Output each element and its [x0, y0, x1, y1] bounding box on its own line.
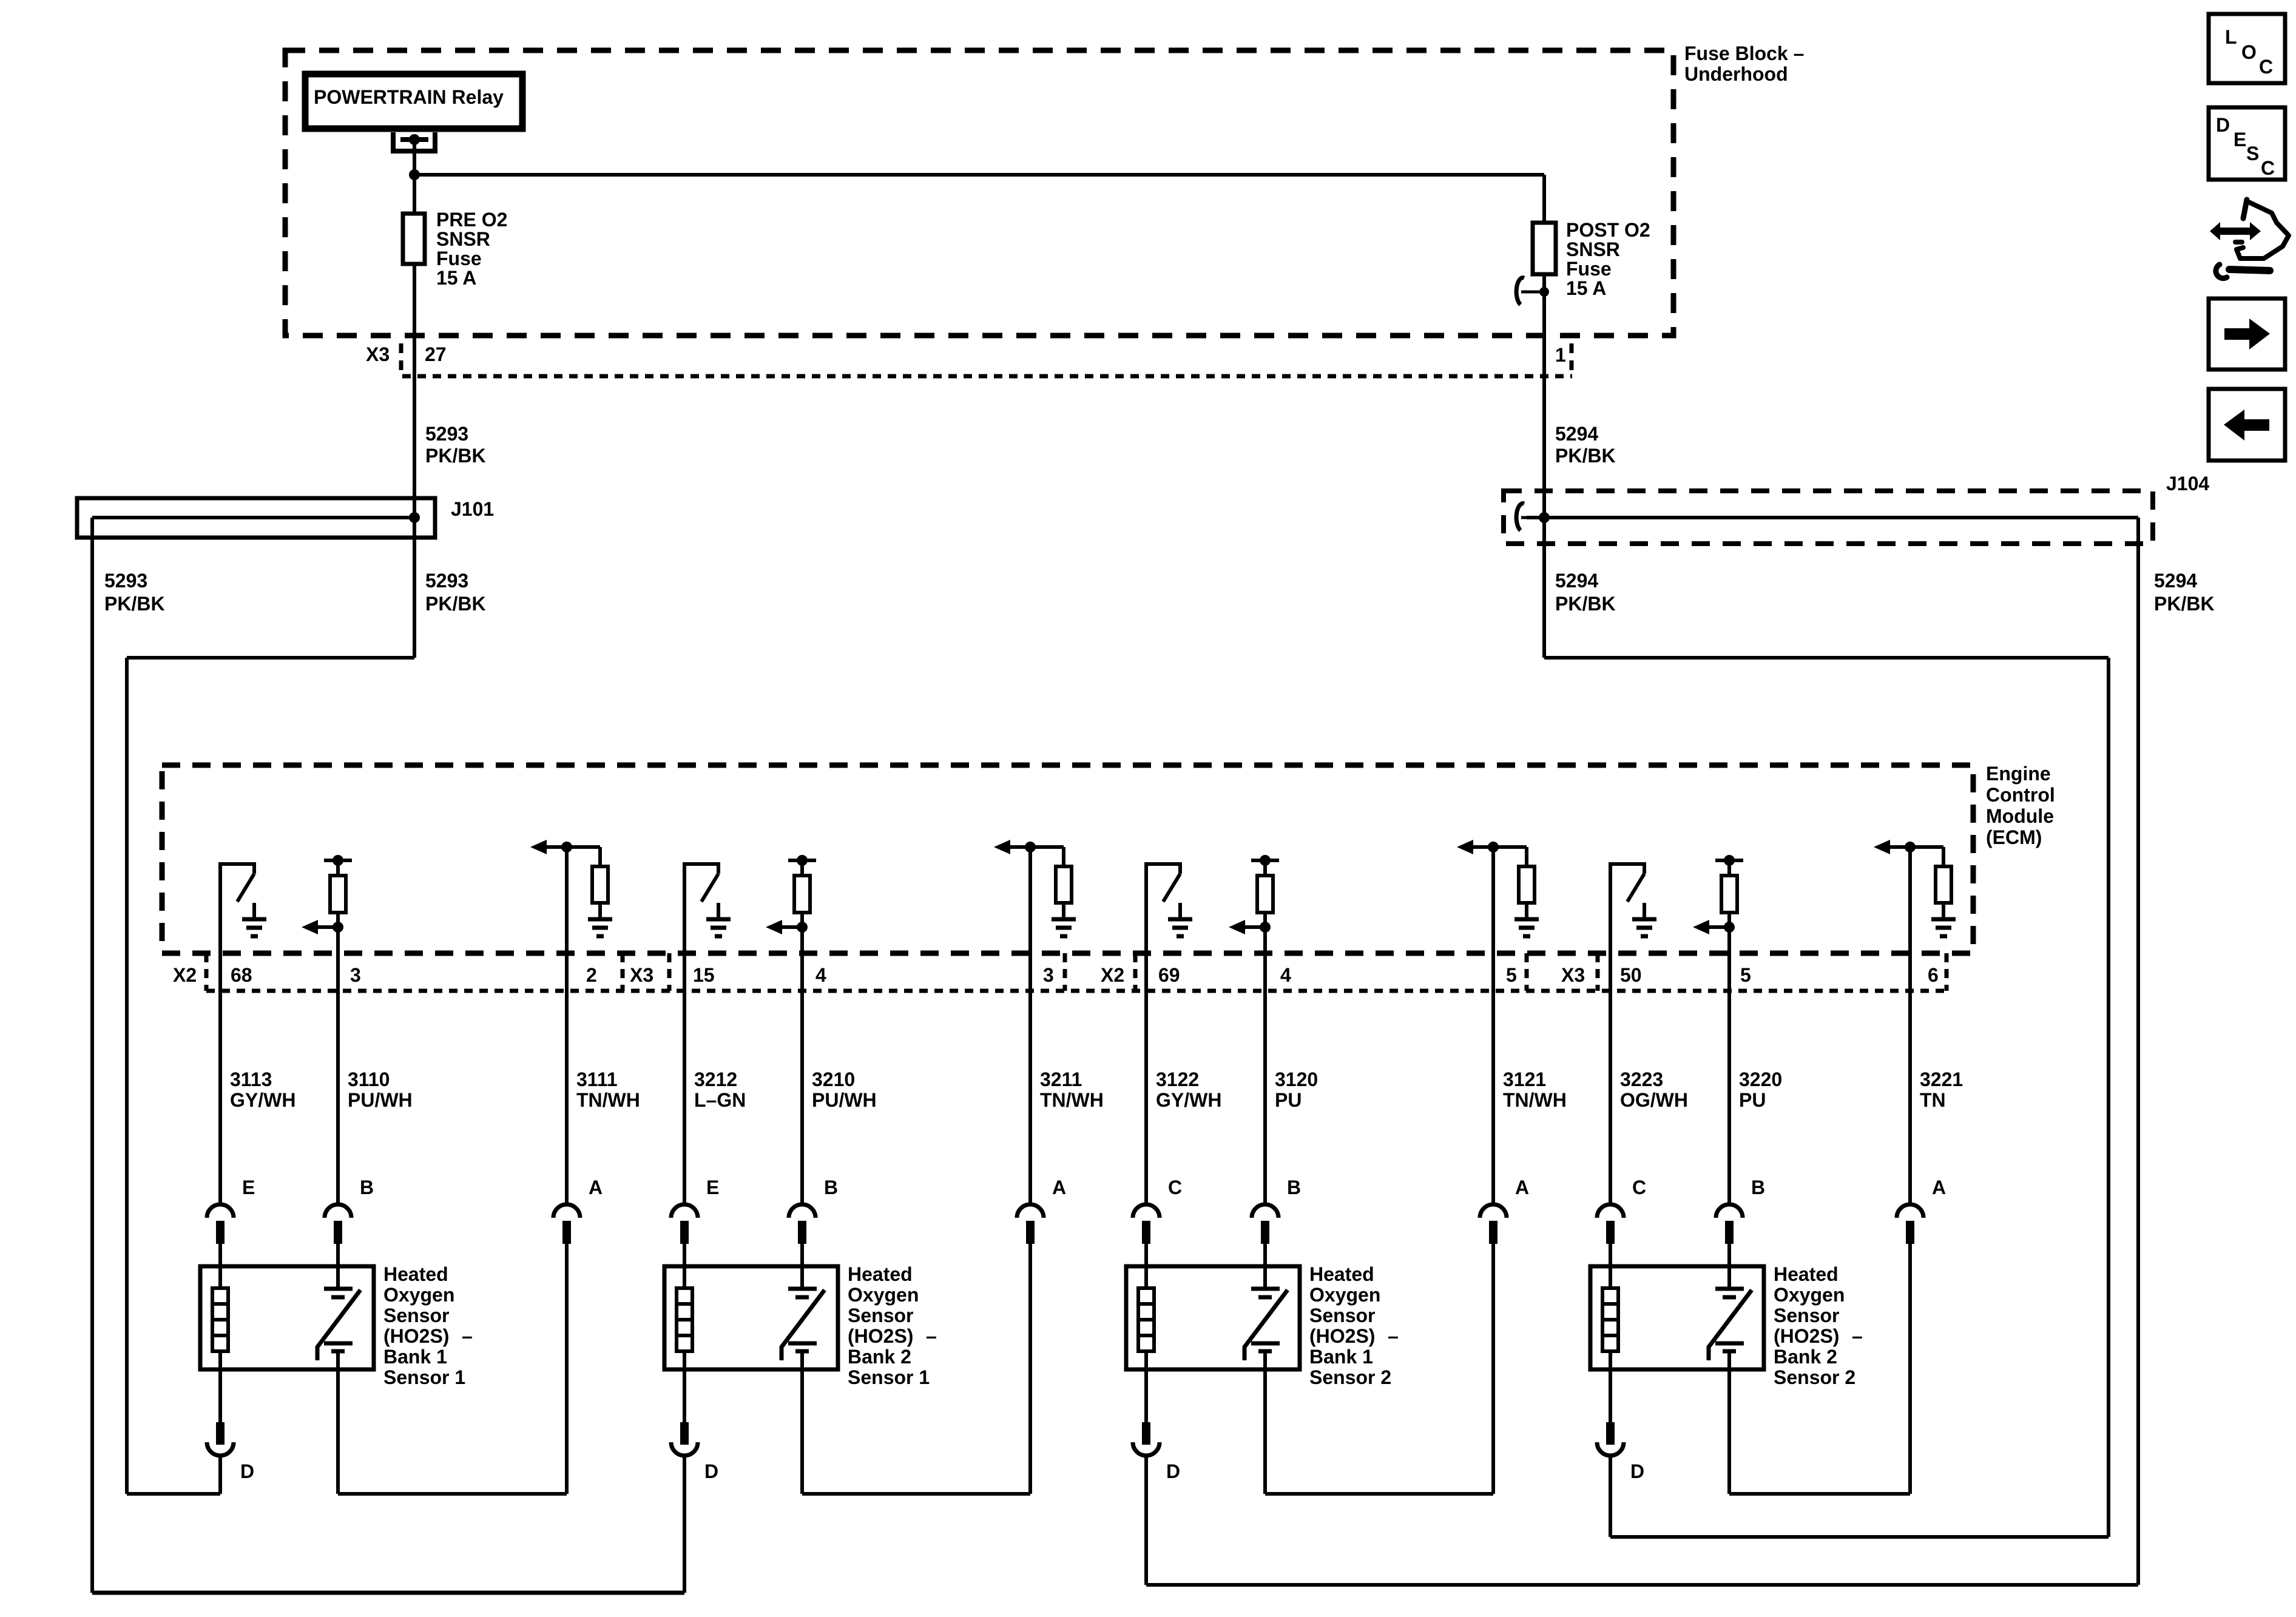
svg-text:(HO2S): (HO2S)	[1309, 1325, 1375, 1347]
svg-text:Oxygen: Oxygen	[1309, 1284, 1380, 1306]
svg-text:Heated: Heated	[848, 1263, 913, 1285]
svg-text:5293: 5293	[425, 570, 468, 592]
svg-text:–: –	[1388, 1325, 1399, 1347]
svg-text:Sensor: Sensor	[848, 1305, 913, 1326]
svg-text:(HO2S): (HO2S)	[383, 1325, 449, 1347]
svg-text:A: A	[1052, 1176, 1066, 1198]
svg-text:Fuse: Fuse	[436, 248, 482, 269]
svg-text:3210: 3210	[812, 1068, 855, 1090]
svg-text:Underhood: Underhood	[1684, 63, 1788, 85]
svg-text:D: D	[2216, 114, 2230, 136]
svg-text:5294: 5294	[1555, 423, 1598, 445]
svg-text:Sensor 1: Sensor 1	[848, 1366, 930, 1388]
svg-text:6: 6	[1928, 964, 1939, 986]
svg-text:A: A	[589, 1176, 603, 1198]
svg-text:Control: Control	[1986, 784, 2055, 806]
svg-text:B: B	[1287, 1176, 1301, 1198]
svg-text:PRE O2: PRE O2	[436, 209, 507, 231]
svg-text:B: B	[1751, 1176, 1765, 1198]
svg-text:PU: PU	[1739, 1089, 1766, 1111]
svg-text:Sensor: Sensor	[1774, 1305, 1839, 1326]
svg-text:(ECM): (ECM)	[1986, 826, 2042, 848]
svg-text:–: –	[926, 1325, 937, 1347]
svg-text:Module: Module	[1986, 805, 2054, 827]
svg-text:D: D	[1166, 1460, 1180, 1482]
svg-text:J101: J101	[451, 498, 494, 520]
svg-text:X2: X2	[173, 964, 197, 986]
svg-text:X3: X3	[1561, 964, 1585, 986]
svg-text:PU: PU	[1275, 1089, 1302, 1111]
svg-text:2: 2	[586, 964, 597, 986]
svg-text:3121: 3121	[1503, 1068, 1546, 1090]
svg-text:POWERTRAIN Relay: POWERTRAIN Relay	[314, 86, 504, 108]
svg-text:50: 50	[1620, 964, 1642, 986]
svg-text:68: 68	[231, 964, 252, 986]
svg-text:PU/WH: PU/WH	[812, 1089, 877, 1111]
svg-text:TN/WH: TN/WH	[1040, 1089, 1104, 1111]
svg-text:PK/BK: PK/BK	[425, 445, 486, 467]
svg-text:X3: X3	[366, 343, 390, 365]
svg-text:69: 69	[1158, 964, 1180, 986]
svg-text:Bank 1: Bank 1	[1309, 1346, 1373, 1368]
svg-text:D: D	[704, 1460, 718, 1482]
svg-text:Bank 2: Bank 2	[848, 1346, 911, 1368]
svg-text:Fuse: Fuse	[1566, 258, 1612, 280]
svg-text:Bank 1: Bank 1	[383, 1346, 447, 1368]
svg-text:C: C	[1632, 1176, 1646, 1198]
svg-text:3113: 3113	[230, 1068, 272, 1090]
svg-text:Sensor: Sensor	[1309, 1305, 1375, 1326]
svg-text:J104: J104	[2166, 473, 2209, 495]
svg-text:3211: 3211	[1040, 1068, 1082, 1090]
svg-text:A: A	[1932, 1176, 1946, 1198]
svg-text:OG/WH: OG/WH	[1620, 1089, 1688, 1111]
svg-text:3110: 3110	[348, 1068, 390, 1090]
svg-text:Fuse Block –: Fuse Block –	[1684, 42, 1804, 64]
svg-text:3: 3	[350, 964, 361, 986]
svg-text:PK/BK: PK/BK	[1555, 593, 1616, 615]
svg-text:3212: 3212	[694, 1068, 737, 1090]
svg-text:C: C	[1168, 1176, 1182, 1198]
svg-text:27: 27	[425, 343, 447, 365]
svg-text:5293: 5293	[425, 423, 468, 445]
svg-text:15: 15	[693, 964, 715, 986]
svg-text:GY/WH: GY/WH	[230, 1089, 295, 1111]
svg-text:Sensor: Sensor	[383, 1305, 449, 1326]
svg-text:Oxygen: Oxygen	[1774, 1284, 1845, 1306]
svg-text:E: E	[706, 1176, 719, 1198]
svg-text:3220: 3220	[1739, 1068, 1782, 1090]
svg-text:3223: 3223	[1620, 1068, 1663, 1090]
svg-text:Sensor 2: Sensor 2	[1774, 1366, 1855, 1388]
svg-text:L–GN: L–GN	[694, 1089, 746, 1111]
svg-text:Sensor 2: Sensor 2	[1309, 1366, 1391, 1388]
svg-text:Sensor 1: Sensor 1	[383, 1366, 465, 1388]
svg-text:Bank 2: Bank 2	[1774, 1346, 1837, 1368]
svg-text:5294: 5294	[1555, 570, 1598, 592]
svg-text:PU/WH: PU/WH	[348, 1089, 413, 1111]
svg-text:–: –	[462, 1325, 473, 1347]
svg-text:5293: 5293	[104, 570, 147, 592]
svg-text:E: E	[2234, 129, 2246, 150]
svg-text:Heated: Heated	[1774, 1263, 1838, 1285]
svg-text:PK/BK: PK/BK	[425, 593, 486, 615]
svg-text:C: C	[2261, 157, 2275, 179]
svg-text:X3: X3	[630, 964, 653, 986]
svg-text:(HO2S): (HO2S)	[848, 1325, 913, 1347]
svg-text:SNSR: SNSR	[1566, 238, 1620, 260]
svg-text:Heated: Heated	[1309, 1263, 1374, 1285]
svg-text:–: –	[1852, 1325, 1863, 1347]
svg-text:Oxygen: Oxygen	[848, 1284, 919, 1306]
svg-text:SNSR: SNSR	[436, 228, 490, 250]
svg-text:3: 3	[1043, 964, 1054, 986]
svg-text:PK/BK: PK/BK	[2154, 593, 2215, 615]
svg-text:3221: 3221	[1920, 1068, 1963, 1090]
svg-text:Heated: Heated	[383, 1263, 448, 1285]
svg-text:3120: 3120	[1275, 1068, 1318, 1090]
svg-text:3122: 3122	[1156, 1068, 1199, 1090]
svg-text:S: S	[2246, 143, 2259, 164]
svg-text:TN/WH: TN/WH	[576, 1089, 640, 1111]
svg-text:GY/WH: GY/WH	[1156, 1089, 1221, 1111]
svg-text:O: O	[2241, 41, 2257, 63]
svg-text:E: E	[242, 1176, 255, 1198]
svg-text:B: B	[360, 1176, 374, 1198]
svg-text:L: L	[2225, 26, 2237, 48]
svg-text:5294: 5294	[2154, 570, 2197, 592]
svg-text:D: D	[1630, 1460, 1644, 1482]
svg-text:POST O2: POST O2	[1566, 219, 1650, 241]
svg-text:1: 1	[1555, 344, 1566, 366]
svg-text:D: D	[240, 1460, 254, 1482]
svg-text:PK/BK: PK/BK	[1555, 445, 1616, 467]
svg-text:B: B	[824, 1176, 838, 1198]
svg-text:X2: X2	[1101, 964, 1124, 986]
svg-text:TN/WH: TN/WH	[1503, 1089, 1567, 1111]
svg-text:5: 5	[1740, 964, 1751, 986]
svg-text:C: C	[2259, 56, 2273, 78]
svg-text:3111: 3111	[576, 1068, 618, 1090]
svg-text:(HO2S): (HO2S)	[1774, 1325, 1839, 1347]
svg-text:4: 4	[1280, 964, 1291, 986]
svg-text:A: A	[1515, 1176, 1529, 1198]
svg-text:15 A: 15 A	[436, 267, 476, 289]
svg-text:4: 4	[815, 964, 826, 986]
svg-text:5: 5	[1506, 964, 1517, 986]
svg-text:Oxygen: Oxygen	[383, 1284, 454, 1306]
svg-text:Engine: Engine	[1986, 763, 2051, 785]
svg-text:PK/BK: PK/BK	[104, 593, 165, 615]
svg-text:TN: TN	[1920, 1089, 1946, 1111]
svg-text:15 A: 15 A	[1566, 277, 1606, 299]
